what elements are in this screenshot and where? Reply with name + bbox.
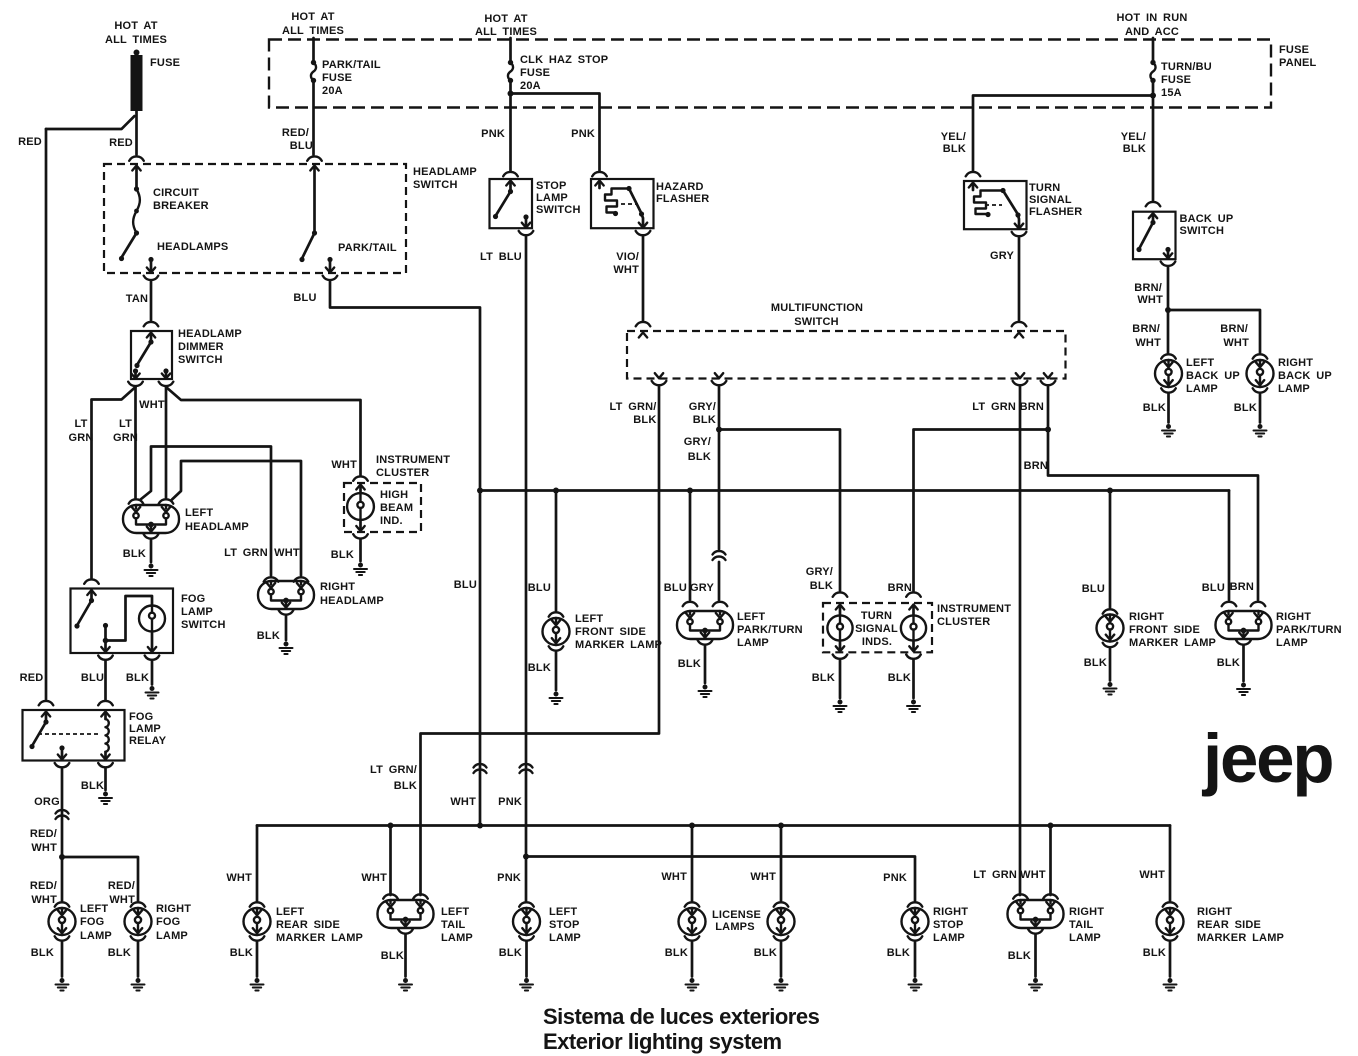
fuse TURN/BU FUSE 15A [1150,38,1212,99]
svg-text:BLK: BLK [693,414,716,426]
svg-text:BLK: BLK [1123,143,1146,155]
svg-text:LEFT: LEFT [737,611,765,623]
right fog lamp [125,902,192,942]
svg-text:TURN: TURN [861,610,892,622]
svg-text:RED/: RED/ [282,127,309,139]
svg-text:LT GRN/: LT GRN/ [370,764,417,776]
svg-text:SIGNAL: SIGNAL [855,623,898,635]
wire LT GRN multifunction to right tail lamp [972,386,1020,895]
svg-text:BLU: BLU [528,582,551,594]
svg-text:BACK UP: BACK UP [1180,213,1234,225]
svg-text:20A: 20A [322,85,343,97]
svg-text:BLK: BLK [887,947,910,959]
ground (high beam ind) [354,563,367,576]
svg-text:TURN/BU: TURN/BU [1161,61,1212,73]
wire WHT to right rear side marker [1139,826,1170,903]
headlamp switch dashed box [104,164,477,273]
wire BLK left park/turn to ground [678,645,705,683]
node RED into fog lamp relay [20,672,54,705]
node HOT AT ALL TIMES (park/tail fuse) [282,11,344,37]
svg-text:BLK: BLK [499,947,522,959]
svg-text:BACK UP: BACK UP [1186,370,1240,382]
svg-text:BLU: BLU [290,140,313,152]
svg-text:BLK: BLK [812,672,835,684]
svg-text:DIMMER: DIMMER [178,341,224,353]
svg-text:BLK: BLK [1084,657,1107,669]
right tail lamp [1008,900,1105,944]
ground (right tail lamp) [1029,978,1042,991]
svg-text:BLU: BLU [293,292,316,304]
ground (turn ind left) [834,700,847,713]
node HOT AT ALL TIMES (clk haz stop fuse) [475,13,537,38]
left rear side marker lamp [244,902,364,944]
wire WHT dimmer to left headlamp high beam [139,387,166,498]
instrument cluster (turn signal inds) [823,603,1011,652]
svg-text:BLK: BLK [126,672,149,684]
wire BRN multifunction to cluster and right park/turn [888,386,1266,606]
license lamp left [679,902,706,940]
left park/turn lamp [677,611,803,649]
svg-text:LEFT: LEFT [549,906,577,918]
svg-text:RIGHT: RIGHT [320,581,355,593]
turn signal ind lamp right [901,605,926,659]
left stop lamp [513,902,581,944]
svg-text:PNK: PNK [883,872,907,884]
wire PNK branch to hazard flasher [511,94,607,177]
svg-text:SWITCH: SWITCH [794,316,839,328]
svg-text:BLU: BLU [664,582,687,594]
svg-text:REAR SIDE: REAR SIDE [276,919,340,931]
svg-text:BLK: BLK [81,780,104,792]
wire BLU fog switch to relay coil [81,661,113,706]
multifunction switch [627,302,1066,385]
svg-text:RED: RED [18,136,42,148]
svg-text:GRY/: GRY/ [684,436,711,448]
wire BLK turn ind left to ground [812,660,840,698]
wire WHT to right tail lamp [1013,823,1058,899]
wire BLK left stop lamp to ground [499,941,527,977]
svg-text:LAMP: LAMP [1069,932,1101,944]
svg-text:WHT: WHT [31,894,57,906]
svg-text:WHT: WHT [1020,869,1046,881]
svg-text:BLU: BLU [454,579,477,591]
svg-text:PARK/TURN: PARK/TURN [737,624,803,636]
svg-text:SWITCH: SWITCH [536,204,581,216]
svg-text:BLK: BLK [688,451,711,463]
ground (right park/turn) [1237,683,1250,696]
svg-text:BLK: BLK [678,658,701,670]
svg-text:BLU: BLU [1202,582,1225,594]
svg-text:LEFT: LEFT [441,906,469,918]
headlamp dimmer switch [128,328,242,386]
ground (right back up lamp) [1254,424,1267,437]
wire WHT to right license lamp [750,823,784,903]
jeep logo [1201,720,1332,797]
right stop lamp [902,902,969,944]
svg-text:BRN/: BRN/ [1220,323,1248,335]
wire BLK right tail lamp to ground [1008,934,1036,977]
svg-text:CLK HAZ STOP: CLK HAZ STOP [520,54,608,66]
svg-text:PNK: PNK [497,872,521,884]
svg-text:RIGHT: RIGHT [1276,611,1311,623]
svg-text:PNK: PNK [481,128,505,140]
ground (right front marker) [1104,682,1117,695]
wire LT BLU / PNK stop lamp switch to left stop lamp [480,236,532,902]
ground (license right) [775,978,788,991]
left fog lamp [49,902,112,942]
svg-text:FRONT SIDE: FRONT SIDE [575,626,646,638]
wire BLK left front marker to ground [528,651,556,690]
node HOT IN RUN AND ACC [1117,12,1188,38]
svg-text:RED/: RED/ [30,828,57,840]
ground (left fog lamp) [56,978,69,991]
circuit breaker (in headlamp switch) [119,166,209,262]
wire WHT tail lamp bus [257,824,1170,827]
right rear side marker lamp [1157,902,1285,944]
ground (turn ind right) [907,700,920,713]
wire BLK left headlamp to ground [123,539,151,562]
wire BLU drop to right front side marker [1082,488,1118,614]
wire BLK turn ind right to ground [888,660,914,698]
wire BLK relay coil to ground [81,768,106,792]
wire WHT high beam bus to right headlamp [172,461,308,582]
svg-text:LAMPS: LAMPS [715,921,755,933]
svg-text:BLK: BLK [394,780,417,792]
svg-text:HEADLAMP: HEADLAMP [178,328,242,340]
svg-text:HOT IN RUN: HOT IN RUN [1117,12,1188,24]
svg-text:Exterior lighting system: Exterior lighting system [543,1029,782,1054]
ground (fog switch lamp) [146,686,159,699]
svg-text:MULTIFUNCTION: MULTIFUNCTION [771,302,863,314]
svg-text:WHT: WHT [1223,337,1249,349]
svg-text:FOG: FOG [80,916,104,928]
wire BLU/WHT down to tail bus [450,491,486,829]
wire RED/WHT to right fog lamp [62,857,138,906]
svg-text:FLASHER: FLASHER [656,193,709,205]
svg-text:RED: RED [109,137,133,149]
svg-text:BLK: BLK [888,672,911,684]
wire BLK right stop lamp to ground [887,941,915,977]
svg-text:RED: RED [20,672,44,684]
fog lamp relay [23,710,167,767]
svg-text:SWITCH: SWITCH [178,354,223,366]
svg-text:GRY/: GRY/ [689,401,716,413]
svg-text:RIGHT: RIGHT [1197,906,1232,918]
svg-text:BLK: BLK [1008,950,1031,962]
node HOT AT ALL TIMES (main fuse) [105,20,167,46]
svg-text:BLK: BLK [1143,947,1166,959]
svg-text:jeep: jeep [1201,720,1332,797]
svg-text:LAMP: LAMP [441,932,473,944]
svg-text:LICENSE: LICENSE [712,909,761,921]
svg-text:LT: LT [74,418,87,430]
svg-text:BLK: BLK [381,950,404,962]
wire GRY/BLK multifunction to left park/turn lamp [684,386,728,606]
left front side marker lamp [543,612,663,651]
svg-text:BRN: BRN [1230,581,1254,593]
svg-text:VIO/: VIO/ [616,251,639,263]
wire BLK right rear marker to ground [1143,941,1170,977]
wire WHT to left tail lamp [361,823,427,899]
wire BRN/WHT back up switch to back up lamps [1132,267,1260,354]
wire RED/BLU park/tail fuse to headlamp switch [282,81,322,161]
right front side marker lamp [1097,611,1217,649]
right park/turn lamp [1216,611,1342,649]
svg-text:FUSE: FUSE [520,67,550,79]
ground (left front marker) [550,692,563,705]
svg-text:FUSE: FUSE [150,57,180,69]
svg-text:LAMP: LAMP [80,930,112,942]
svg-text:SWITCH: SWITCH [413,179,458,191]
svg-text:SWITCH: SWITCH [181,619,226,631]
svg-text:BLK: BLK [331,549,354,561]
svg-text:TAN: TAN [126,293,148,305]
svg-text:FRONT SIDE: FRONT SIDE [1129,624,1200,636]
svg-text:BLK: BLK [665,947,688,959]
ground (left park/turn) [699,685,712,698]
wire RED left branch down to fog lamp relay [45,129,48,700]
svg-text:LT BLU: LT BLU [480,251,522,263]
left tail lamp [378,900,473,944]
svg-text:HEADLAMP: HEADLAMP [185,521,249,533]
svg-text:BLU: BLU [1082,583,1105,595]
svg-text:BACK UP: BACK UP [1278,370,1332,382]
svg-text:WHT: WHT [613,264,639,276]
svg-text:LAMP: LAMP [1278,383,1310,395]
svg-text:LAMP: LAMP [549,932,581,944]
svg-text:FLASHER: FLASHER [1029,206,1082,218]
wire BLU drop to left park/turn lamp [664,488,698,607]
instrument cluster label (high beam ind) [376,454,450,479]
ground (left headlamp) [145,564,158,577]
svg-text:GRY: GRY [990,250,1014,262]
svg-text:WHT: WHT [1139,869,1165,881]
wire GRY turn signal flasher to multifunction switch [990,237,1026,326]
license lamp right [768,902,795,940]
svg-text:BEAM: BEAM [380,502,413,514]
svg-text:REAR SIDE: REAR SIDE [1197,919,1261,931]
svg-text:WHT: WHT [1137,294,1163,306]
svg-text:PANEL: PANEL [1279,57,1317,69]
svg-text:BRN: BRN [1020,401,1044,413]
svg-text:FOG: FOG [156,916,180,928]
left headlamp [123,499,249,538]
wire RED/WHT to left fog lamp [30,857,62,906]
svg-text:MARKER LAMP: MARKER LAMP [575,639,662,651]
svg-text:BRN: BRN [888,582,912,594]
svg-text:LAMP: LAMP [536,192,568,204]
svg-text:TAIL: TAIL [441,919,466,931]
svg-text:RIGHT: RIGHT [1278,357,1313,369]
svg-text:HEADLAMP: HEADLAMP [413,166,477,178]
wire BLU parking lamp bus [477,488,1229,494]
title Sistema de luces exteriores [543,1004,820,1054]
svg-text:HOT AT: HOT AT [291,11,334,23]
svg-text:RIGHT: RIGHT [156,903,191,915]
svg-text:BLK: BLK [108,947,131,959]
svg-text:STOP: STOP [933,919,964,931]
wire LT GRN/BLK multifunction to left tail lamp [370,386,659,895]
wire BLK high beam ind to ground [331,540,361,562]
back up switch [1133,212,1233,266]
ground (right stop lamp) [909,978,922,991]
svg-text:LAMP: LAMP [1276,637,1308,649]
left back up lamp [1155,354,1240,395]
svg-text:FOG: FOG [181,593,205,605]
wire BLK left fog lamp to ground [31,941,62,977]
wire BLU bus corner to right park/turn lamp [1202,491,1237,607]
svg-text:BLK: BLK [633,414,656,426]
svg-text:HOT AT: HOT AT [484,13,527,25]
svg-text:BLK: BLK [1143,402,1166,414]
ground (right headlamp) [280,642,293,655]
svg-text:MARKER LAMP: MARKER LAMP [1197,932,1284,944]
svg-text:WHT: WHT [750,871,776,883]
svg-text:15A: 15A [1161,87,1182,99]
svg-text:GRN: GRN [113,432,138,444]
wire YEL/BLK branch to turn signal flasher [941,96,1153,177]
fuse panel dashed box [269,40,1317,108]
svg-text:INSTRUMENT: INSTRUMENT [376,454,450,466]
svg-text:SWITCH: SWITCH [1180,225,1225,237]
svg-text:SIGNAL: SIGNAL [1029,194,1072,206]
hazard flasher [591,179,709,235]
svg-text:RELAY: RELAY [129,735,167,747]
label LICENSE LAMPS [712,909,761,933]
svg-text:BLK: BLK [257,630,280,642]
fuse PARK/TAIL FUSE 20A [311,38,381,97]
wire LT GRN low beam bus to right headlamp [141,447,279,582]
svg-text:HEADLAMPS: HEADLAMPS [157,241,228,253]
ground (right fog lamp) [132,978,145,991]
wire WHT dimmer to high beam indicator [166,387,368,481]
turn signal ind lamp left [827,605,852,659]
svg-text:LT GRN: LT GRN [972,401,1016,413]
wire WHT to left license lamp [661,823,695,903]
svg-text:BLK: BLK [123,548,146,560]
svg-text:CLUSTER: CLUSTER [376,467,429,479]
svg-text:LEFT: LEFT [1186,357,1214,369]
right back up lamp [1247,354,1332,395]
svg-text:LEFT: LEFT [185,507,213,519]
ground (left back up lamp) [1162,424,1175,437]
svg-text:GRN: GRN [68,432,93,444]
fuse main (FUSE) [131,50,181,112]
svg-text:HIGH: HIGH [380,489,408,501]
svg-text:BREAKER: BREAKER [153,200,209,212]
svg-text:BLK: BLK [528,662,551,674]
svg-text:PARK/TAIL: PARK/TAIL [338,242,397,254]
stop lamp switch [490,179,581,235]
svg-text:WHT: WHT [139,399,165,411]
svg-text:WHT: WHT [361,872,387,884]
contact PARK/TAIL (headlamp switch) [299,166,397,281]
svg-text:RIGHT: RIGHT [933,906,968,918]
wire LT GRN dimmer to fog lamp switch [68,387,135,584]
svg-text:ALL TIMES: ALL TIMES [105,34,167,46]
svg-text:BLK: BLK [810,580,833,592]
svg-text:WHT: WHT [31,842,57,854]
svg-text:LEFT: LEFT [276,906,304,918]
svg-text:TURN: TURN [1029,182,1060,194]
svg-text:TAIL: TAIL [1069,919,1094,931]
svg-text:HEADLAMP: HEADLAMP [320,595,384,607]
wire BLK right headlamp to ground [257,615,286,642]
wire VIO/WHT hazard flasher to multifunction switch [613,236,650,326]
svg-text:LAMP: LAMP [1186,383,1218,395]
svg-text:LAMP: LAMP [737,637,769,649]
wire BLK right front marker to ground [1084,648,1110,681]
wire WHT to left rear side marker [226,826,257,903]
ground (left stop lamp) [520,978,533,991]
svg-text:LEFT: LEFT [575,613,603,625]
wire BLU drop to left front side marker [528,488,559,612]
svg-text:AND ACC: AND ACC [1125,26,1179,38]
svg-text:STOP: STOP [549,919,580,931]
svg-text:LT: LT [119,418,132,430]
svg-text:WHT: WHT [274,547,300,559]
svg-text:BRN/: BRN/ [1132,323,1160,335]
svg-text:WHT: WHT [661,871,687,883]
svg-text:BLU: BLU [81,672,104,684]
ground (fog lamp relay) [99,792,112,805]
svg-text:LAMP: LAMP [933,932,965,944]
wire LT GRN dimmer to left headlamp low beam [113,387,138,498]
svg-text:WHT: WHT [331,459,357,471]
wire YEL/BLK fuse to back up switch [1121,81,1161,207]
svg-text:INDS.: INDS. [862,636,892,648]
svg-text:FUSE: FUSE [1161,74,1191,86]
svg-text:GRY/: GRY/ [806,566,833,578]
svg-text:RED/: RED/ [108,880,135,892]
svg-text:IND.: IND. [380,515,403,527]
svg-text:INSTRUMENT: INSTRUMENT [937,603,1011,615]
svg-text:BLK: BLK [943,143,966,155]
svg-text:HOT AT: HOT AT [114,20,157,32]
wire BLK right fog lamp to ground [108,941,138,977]
svg-text:BLK: BLK [31,947,54,959]
svg-text:BLK: BLK [1234,402,1257,414]
svg-text:ALL TIMES: ALL TIMES [282,25,344,37]
svg-text:FUSE: FUSE [1279,44,1309,56]
svg-text:MARKER LAMP: MARKER LAMP [276,932,363,944]
contact HEADLAMPS (headlamp switch output) [144,241,229,280]
svg-text:WHT: WHT [226,872,252,884]
svg-text:FOG: FOG [129,711,153,723]
wire BLK fog switch lamp to ground [126,661,152,685]
wire PNK stop lamp bus [526,857,915,903]
svg-text:20A: 20A [520,80,541,92]
svg-text:LT GRN: LT GRN [973,869,1017,881]
wire TAN headlamps to dimmer switch [126,281,158,326]
svg-text:ALL TIMES: ALL TIMES [475,26,537,38]
svg-text:PARK/TAIL: PARK/TAIL [322,59,381,71]
svg-text:RIGHT: RIGHT [1069,906,1104,918]
fuse CLK HAZ STOP FUSE 20A [508,38,608,92]
svg-text:HAZARD: HAZARD [656,181,704,193]
wire BLK left rear marker to ground [230,941,257,977]
wire BLK left tail lamp to ground [381,934,406,977]
wire PNK fuse to stop lamp switch [481,81,518,177]
svg-text:LT GRN: LT GRN [224,547,268,559]
svg-text:WHT: WHT [450,796,476,808]
svg-text:MARKER LAMP: MARKER LAMP [1129,637,1216,649]
right headlamp [224,547,384,615]
ground (right rear marker) [1164,978,1177,991]
svg-text:BLK: BLK [230,947,253,959]
svg-text:PARK/TURN: PARK/TURN [1276,624,1342,636]
svg-text:BRN/: BRN/ [1134,282,1162,294]
